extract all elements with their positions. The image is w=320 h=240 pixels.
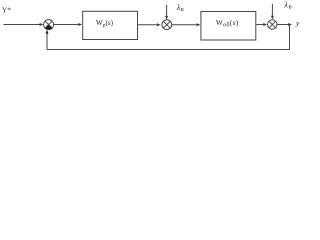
wire feedback branch down from output [289, 25, 291, 50]
wire W1 to summator S2 [138, 24, 158, 26]
block W2 object Wob(s) [201, 12, 256, 41]
summing junction S1 [44, 20, 54, 30]
wire S2 to block W2 [172, 24, 197, 26]
wire input Y* to summator S1 [4, 24, 41, 26]
wire disturbance arrow into S3 [271, 4, 273, 16]
wire disturbance arrow into S2 [166, 5, 168, 16]
summing junction S3 [268, 20, 277, 29]
svg-text:Wр(s): Wр(s) [96, 19, 114, 28]
wire feedback rise into S1 [46, 33, 48, 50]
wire S1 to block W1 [54, 24, 79, 26]
svg-text:y: y [295, 18, 300, 27]
block W1 regulator Wp(s) [83, 11, 138, 39]
wire S3 to output y [277, 24, 289, 26]
wire feedback bottom run [47, 49, 290, 51]
summing junction S2 [162, 20, 172, 30]
wire W2 to summator S3 [256, 24, 264, 26]
svg-text:Y*: Y* [2, 6, 11, 15]
